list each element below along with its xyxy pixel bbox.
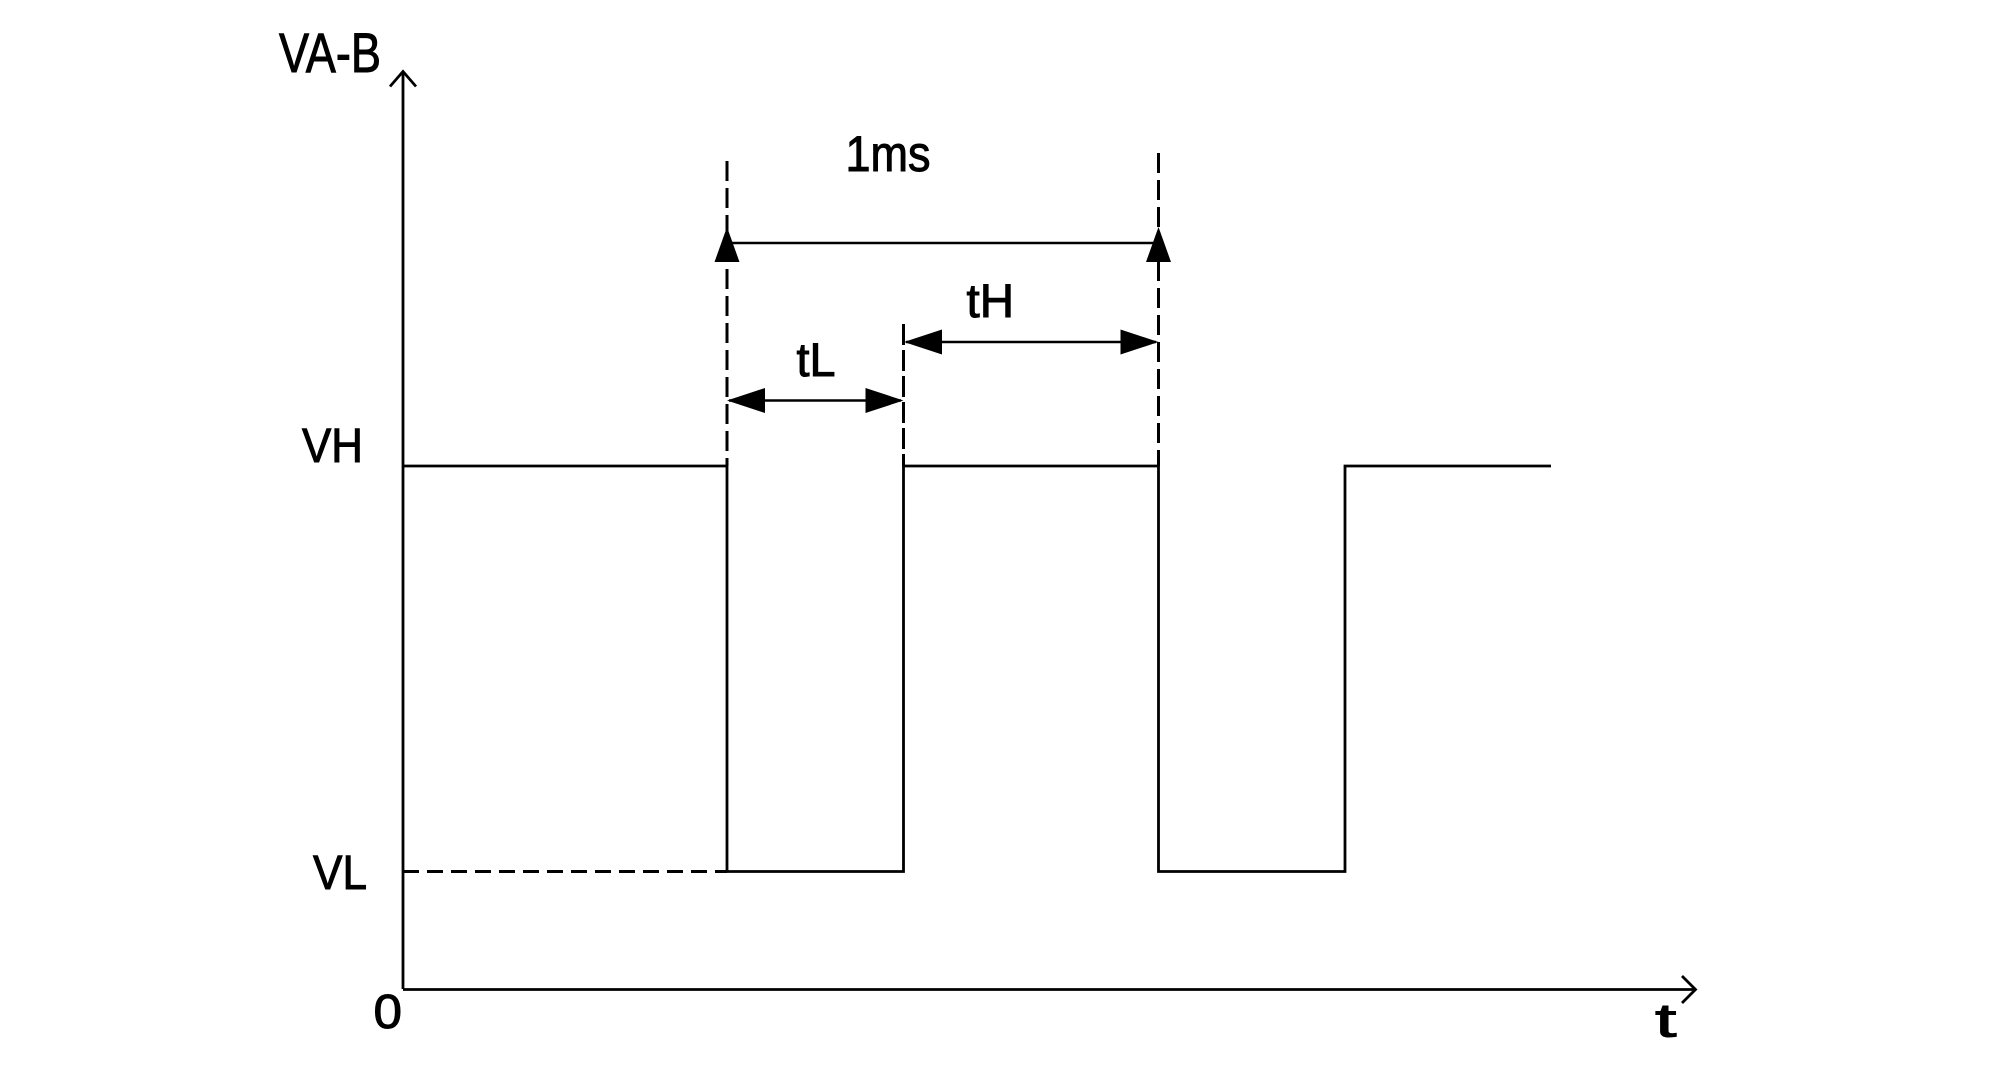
svg-text:VH: VH <box>302 420 363 473</box>
svg-text:0: 0 <box>374 986 403 1039</box>
svg-text:tL: tL <box>797 333 836 386</box>
svg-text:VA-B: VA-B <box>279 21 381 84</box>
svg-text:tH: tH <box>967 274 1015 327</box>
svg-text:1ms: 1ms <box>846 126 931 182</box>
svg-text:t: t <box>1655 995 1677 1048</box>
svg-text:VL: VL <box>313 846 367 900</box>
